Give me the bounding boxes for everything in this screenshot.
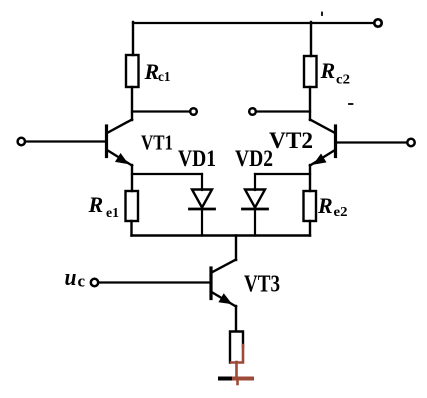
wire Rc1 to VT1 collector bbox=[131, 87, 133, 120]
wire Re1 to bottom rail bbox=[130, 221, 132, 236]
svg-text:c: c bbox=[78, 272, 86, 291]
ground bbox=[220, 379, 252, 385]
wire top rail bbox=[133, 22, 374, 24]
diode VD1 bbox=[190, 174, 215, 236]
svg-text:R: R bbox=[317, 193, 333, 218]
resistor Re1 bbox=[126, 191, 139, 221]
wire bottom rail bbox=[132, 234, 311, 236]
svg-text:VD1: VD1 bbox=[178, 146, 216, 171]
wire VT3 emitter down bbox=[235, 306, 237, 331]
svg-text:VT2: VT2 bbox=[269, 128, 313, 153]
wire top rail to Rc1 bbox=[132, 22, 134, 55]
wire VD2 to VT2 emitter bbox=[255, 173, 310, 175]
resistor Rc1 bbox=[126, 55, 139, 87]
node uc input terminal bbox=[91, 279, 98, 286]
node right collector terminal bbox=[249, 108, 256, 115]
node left input terminal bbox=[18, 138, 25, 145]
wire top rail to Rc2 bbox=[310, 22, 312, 56]
wire VT3 base input bbox=[98, 281, 209, 283]
transistor Q VT3 bbox=[211, 260, 236, 307]
resistor Rc2 bbox=[304, 56, 317, 87]
svg-text:e2: e2 bbox=[334, 205, 348, 220]
wire collector output left bbox=[132, 110, 190, 112]
svg-text:c2: c2 bbox=[336, 73, 350, 88]
transistor Q VT1 bbox=[107, 120, 133, 166]
wire Re2 to bottom rail bbox=[309, 221, 311, 236]
svg-text:VT1: VT1 bbox=[141, 131, 173, 155]
resistor Re2 bbox=[304, 191, 317, 221]
wire Rc2 to VT2 collector bbox=[309, 87, 311, 120]
svg-text:R: R bbox=[144, 59, 160, 84]
artifact specks bbox=[321, 13, 323, 16]
svg-text:u: u bbox=[65, 265, 77, 291]
wire emitter to VD1 bbox=[132, 173, 202, 175]
svg-text:c1: c1 bbox=[158, 70, 171, 85]
resistor Re3 emitter resistor bbox=[230, 332, 243, 363]
wire VT1 base input bbox=[25, 140, 105, 142]
node top-right terminal bbox=[374, 19, 381, 26]
wire collector output right bbox=[256, 110, 310, 112]
svg-text:e1: e1 bbox=[106, 206, 119, 221]
svg-text:R: R bbox=[88, 192, 104, 217]
transistor Q VT2 bbox=[310, 120, 336, 166]
wire VT2 emitter down bbox=[309, 165, 311, 191]
svg-text:R: R bbox=[320, 58, 336, 83]
svg-text:VT3: VT3 bbox=[244, 272, 280, 298]
wire center tap to VT3 collector bbox=[235, 236, 237, 261]
wire VT1 emitter down bbox=[131, 165, 133, 191]
svg-text:VD2: VD2 bbox=[235, 146, 273, 171]
node right input terminal bbox=[407, 139, 414, 146]
wire resistor to ground bbox=[235, 362, 238, 377]
node left collector terminal bbox=[190, 108, 197, 115]
wire VT2 base input bbox=[337, 141, 407, 143]
diode VD2 bbox=[243, 174, 268, 236]
